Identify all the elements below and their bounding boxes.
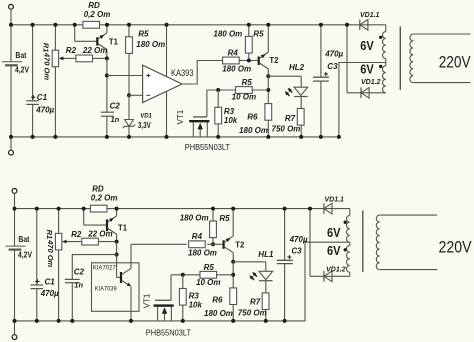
svg-text:1n: 1n (74, 280, 83, 289)
svg-text:T1: T1 (118, 223, 128, 232)
svg-text:T2: T2 (269, 56, 279, 65)
svg-text:C2: C2 (110, 101, 121, 110)
svg-text:6V: 6V (360, 38, 374, 53)
svg-text:470µ: 470µ (289, 235, 308, 244)
svg-text:R5: R5 (242, 78, 253, 87)
svg-text:T2: T2 (235, 240, 245, 249)
svg-text:RD: RD (92, 185, 104, 194)
svg-text:3,3V: 3,3V (138, 121, 152, 130)
svg-text:R3: R3 (224, 107, 235, 116)
svg-text:VD1.1: VD1.1 (325, 196, 345, 203)
svg-text:1n: 1n (111, 115, 120, 124)
svg-text:R4: R4 (228, 48, 239, 57)
svg-text:6V: 6V (327, 225, 341, 240)
svg-text:470µ: 470µ (35, 106, 54, 115)
svg-text:R1: R1 (42, 43, 51, 53)
svg-text:KIA7027: KIA7027 (93, 265, 116, 272)
svg-text:R6: R6 (247, 112, 258, 121)
svg-text:R2: R2 (66, 46, 77, 55)
svg-text:750 Om: 750 Om (272, 125, 301, 134)
svg-text:470µ: 470µ (324, 50, 343, 59)
svg-text:R4: R4 (192, 232, 203, 241)
svg-text:470µ: 470µ (40, 289, 59, 298)
svg-text:R5: R5 (204, 263, 215, 272)
svg-text:0,2 Om: 0,2 Om (91, 194, 118, 203)
svg-text:VT1: VT1 (143, 293, 152, 308)
svg-text:R5: R5 (219, 214, 230, 223)
svg-text:180 Om: 180 Om (204, 309, 233, 318)
svg-text:C3: C3 (327, 62, 338, 71)
svg-text:R5: R5 (138, 30, 149, 39)
svg-text:R7: R7 (285, 114, 296, 123)
svg-text:R3: R3 (189, 292, 200, 301)
svg-text:KA393: KA393 (171, 68, 194, 78)
svg-text:R7: R7 (250, 297, 261, 306)
svg-text:10k: 10k (189, 301, 203, 310)
svg-text:Bat: Bat (15, 51, 26, 60)
svg-text:C3: C3 (291, 246, 302, 255)
svg-text:4,2V: 4,2V (18, 251, 33, 260)
svg-text:180 Om: 180 Om (180, 213, 209, 222)
svg-text:180 Om: 180 Om (213, 30, 242, 39)
svg-text:22 Om: 22 Om (82, 46, 107, 55)
svg-text:R6: R6 (212, 296, 223, 305)
svg-text:180 Om: 180 Om (239, 126, 268, 135)
svg-text:R5: R5 (253, 30, 264, 39)
svg-text:C2: C2 (74, 267, 85, 276)
svg-text:180 Om: 180 Om (222, 65, 251, 74)
svg-text:VD1.2: VD1.2 (326, 267, 346, 274)
svg-text:PHB55N03LT: PHB55N03LT (185, 142, 230, 152)
svg-text:0,2 Om: 0,2 Om (84, 10, 111, 19)
svg-text:6V: 6V (327, 243, 341, 258)
svg-text:HL1: HL1 (258, 250, 274, 259)
svg-text:6V: 6V (360, 62, 374, 77)
svg-text:180 Om: 180 Om (136, 40, 165, 49)
svg-text:180 Om: 180 Om (188, 249, 217, 258)
svg-text:R2: R2 (71, 230, 82, 239)
svg-text:VD1.2: VD1.2 (361, 79, 381, 86)
svg-text:10 Om: 10 Om (196, 278, 220, 287)
svg-text:470 Om: 470 Om (46, 239, 55, 267)
svg-text:470 Om: 470 Om (42, 52, 51, 80)
svg-text:VD1.1: VD1.1 (360, 12, 380, 19)
svg-text:RD: RD (88, 1, 100, 10)
svg-text:220V: 220V (439, 238, 472, 256)
svg-text:R1: R1 (45, 230, 54, 240)
svg-text:22 Om: 22 Om (87, 229, 112, 238)
svg-text:VD1: VD1 (140, 113, 152, 119)
svg-text:C1: C1 (45, 277, 56, 286)
svg-text:KIA7039: KIA7039 (95, 285, 117, 292)
svg-text:750 Om: 750 Om (238, 309, 267, 318)
svg-text:10 Om: 10 Om (232, 92, 256, 101)
svg-text:PHB55N03LT: PHB55N03LT (146, 328, 191, 338)
svg-text:VT1: VT1 (176, 109, 185, 124)
svg-text:T1: T1 (109, 37, 119, 46)
svg-text:4,2V: 4,2V (15, 65, 30, 74)
svg-text:HL2: HL2 (289, 63, 305, 72)
svg-text:10k: 10k (224, 116, 238, 125)
svg-text:Bat: Bat (18, 235, 29, 244)
svg-text:C1: C1 (37, 93, 48, 102)
svg-text:220V: 220V (439, 54, 471, 72)
